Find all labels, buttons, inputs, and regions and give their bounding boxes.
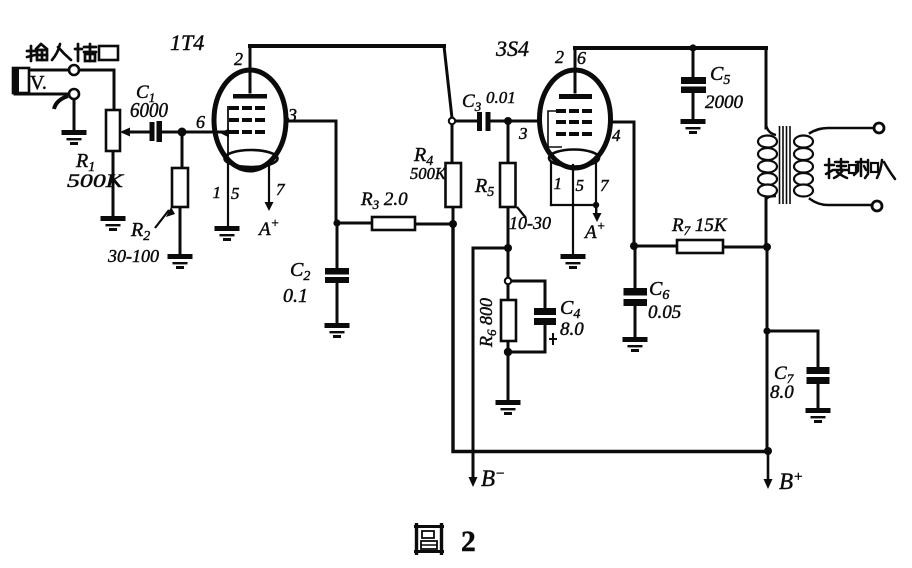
svg-text:R3 2.0: R3 2.0 <box>360 189 408 212</box>
svg-text:6: 6 <box>196 112 205 132</box>
svg-text:0.01: 0.01 <box>486 88 516 107</box>
svg-text:5: 5 <box>576 176 585 195</box>
svg-text:8.0: 8.0 <box>560 319 584 340</box>
svg-text:5: 5 <box>231 184 240 203</box>
svg-text:2: 2 <box>555 47 564 67</box>
svg-text:V.: V. <box>30 72 47 94</box>
svg-text:4: 4 <box>612 126 621 145</box>
svg-text:30-100: 30-100 <box>107 246 159 266</box>
svg-text:2: 2 <box>461 526 476 558</box>
svg-text:0.05: 0.05 <box>648 302 681 323</box>
svg-text:6: 6 <box>577 48 586 68</box>
svg-text:1: 1 <box>554 174 563 193</box>
svg-text:6000: 6000 <box>130 98 168 122</box>
svg-text:0.1: 0.1 <box>283 285 308 307</box>
svg-text:500K: 500K <box>67 171 125 192</box>
svg-text:R7 15K: R7 15K <box>671 215 728 238</box>
svg-text:1: 1 <box>213 183 222 202</box>
svg-text:8.0: 8.0 <box>770 382 794 403</box>
svg-text:3: 3 <box>518 124 528 143</box>
svg-text:2: 2 <box>234 49 243 69</box>
svg-text:R6 800: R6 800 <box>476 298 499 348</box>
svg-text:2000: 2000 <box>705 92 744 113</box>
svg-text:1T4: 1T4 <box>170 30 204 55</box>
svg-text:3S4: 3S4 <box>495 36 529 61</box>
svg-text:500K: 500K <box>410 164 447 183</box>
svg-text:3: 3 <box>287 105 297 125</box>
svg-text:10-30: 10-30 <box>509 213 551 233</box>
